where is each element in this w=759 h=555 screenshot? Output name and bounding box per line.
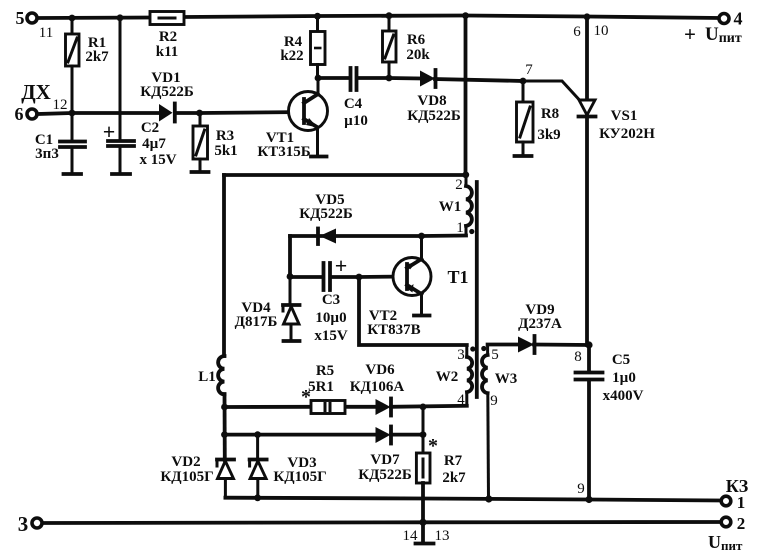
wire oscillator supply top edge bbox=[224, 173, 466, 177]
node junction C5 bottom 9 bbox=[577, 481, 592, 503]
svg-text:R6: R6 bbox=[407, 32, 426, 48]
node junction VT1 collector bbox=[315, 75, 322, 82]
wire gate to VS1 bbox=[523, 81, 579, 100]
terminal 5 bbox=[16, 8, 54, 41]
terminal 6 DX input bbox=[15, 80, 68, 124]
svg-text:1µ0: 1µ0 bbox=[612, 370, 636, 386]
svg-text:VS1: VS1 bbox=[611, 108, 638, 124]
svg-text:2k7: 2k7 bbox=[442, 470, 466, 486]
svg-text:C2: C2 bbox=[141, 120, 159, 136]
node junction L1 VD2 row bbox=[221, 431, 228, 438]
diode VD7 bbox=[358, 427, 412, 484]
node junction R6 top bbox=[386, 12, 393, 19]
svg-text:R2: R2 bbox=[159, 29, 177, 45]
inductor L1 bbox=[198, 356, 224, 394]
svg-text:3: 3 bbox=[18, 512, 29, 536]
wire C2 to top rail bbox=[119, 18, 122, 140]
diode VD9 bbox=[518, 302, 562, 353]
phasing dot W2 bbox=[470, 346, 475, 351]
svg-text:2: 2 bbox=[455, 177, 463, 193]
resistor R6 bbox=[383, 16, 431, 79]
wire R7 link VD6 VD7 bbox=[422, 407, 425, 435]
wire base node to W2 pin3 bbox=[359, 277, 467, 345]
svg-text:14: 14 bbox=[403, 528, 419, 544]
capacitor C5 bbox=[576, 345, 644, 500]
node junction R1 top bbox=[69, 15, 76, 22]
wire KZ rail bbox=[225, 498, 721, 501]
node 6 10 labels bbox=[573, 23, 608, 40]
zener VD4 bbox=[235, 276, 300, 341]
wire top supply rail bbox=[37, 16, 719, 19]
wire VD5 left corner down bbox=[288, 236, 292, 276]
resistor R5 bbox=[301, 363, 345, 414]
phasing dot W1 bbox=[469, 229, 474, 234]
svg-text:C4: C4 bbox=[344, 96, 363, 112]
terminal 4 bbox=[684, 9, 742, 47]
node 7 junction bbox=[520, 62, 534, 84]
capacitor C4 bbox=[318, 68, 389, 129]
node junction L1 bottom R5 wire bbox=[221, 404, 228, 411]
svg-text:КТ315Б: КТ315Б bbox=[257, 144, 310, 160]
winding W3 bbox=[482, 345, 517, 500]
node junction top rail x465 bbox=[462, 12, 469, 19]
wire L1 bottom down bbox=[223, 394, 227, 460]
svg-text:k11: k11 bbox=[156, 44, 179, 60]
svg-text:k22: k22 bbox=[280, 48, 303, 64]
svg-text:КУ202Н: КУ202Н bbox=[599, 126, 655, 142]
thyristor VS1 bbox=[579, 17, 656, 345]
svg-text:КД522Б: КД522Б bbox=[407, 108, 461, 124]
svg-text:3: 3 bbox=[457, 347, 465, 363]
svg-text:9: 9 bbox=[490, 393, 498, 409]
node junction C1 R1 bbox=[69, 110, 76, 117]
svg-text:4µ7: 4µ7 bbox=[142, 136, 166, 152]
capacitor C1 bbox=[35, 113, 85, 174]
diode VD6 bbox=[350, 362, 405, 416]
svg-text:Д237А: Д237А bbox=[518, 316, 562, 332]
node junction VD3 top bbox=[254, 431, 261, 438]
node junction VD6 cathode bbox=[420, 404, 427, 411]
svg-text:C3: C3 bbox=[322, 292, 340, 308]
resistor R2 bbox=[150, 12, 184, 61]
wire DX line left bbox=[37, 113, 159, 114]
diode VD5 bbox=[299, 192, 353, 244]
terminal 1 KZ bbox=[721, 476, 749, 512]
svg-text:12: 12 bbox=[53, 97, 68, 113]
svg-text:R3: R3 bbox=[216, 128, 234, 144]
svg-text:13: 13 bbox=[435, 528, 450, 544]
svg-text:КД105Г: КД105Г bbox=[273, 469, 326, 485]
svg-text:5k1: 5k1 bbox=[214, 143, 237, 159]
svg-text:W2: W2 bbox=[436, 369, 459, 385]
svg-text:VD7: VD7 bbox=[370, 452, 400, 468]
resistor R7 bbox=[416, 435, 466, 541]
winding W2 bbox=[436, 345, 472, 408]
svg-text:6: 6 bbox=[15, 104, 24, 124]
svg-text:*: * bbox=[301, 386, 311, 408]
node junction VD3 bottom bbox=[254, 494, 261, 501]
node junction C3 VD4 bbox=[287, 273, 294, 280]
svg-text:КД106А: КД106А bbox=[350, 379, 405, 395]
svg-text:5R1: 5R1 bbox=[308, 379, 334, 395]
phasing dot W3 bbox=[481, 346, 486, 351]
svg-text:2: 2 bbox=[737, 514, 746, 533]
svg-text:R7: R7 bbox=[444, 453, 463, 469]
node junction R6 bottom C4 bbox=[386, 75, 393, 82]
resistor R8 bbox=[515, 81, 561, 156]
node junction C2 top bbox=[117, 14, 124, 21]
terminal 2 Upit bbox=[708, 514, 745, 553]
svg-text:µ10: µ10 bbox=[344, 113, 368, 129]
resistor R1 bbox=[66, 18, 110, 113]
svg-text:5: 5 bbox=[16, 8, 25, 28]
svg-text:4: 4 bbox=[734, 9, 743, 29]
node junction VS1 top bbox=[584, 13, 591, 20]
transistor VT2 bbox=[359, 236, 431, 338]
terminal 3 bbox=[18, 512, 42, 536]
svg-text:КД522Б: КД522Б bbox=[299, 206, 353, 222]
diode VD1 bbox=[140, 70, 194, 122]
wire DX line right to VT1 base bbox=[175, 112, 304, 113]
svg-text:КД105Г: КД105Г bbox=[160, 469, 213, 485]
svg-text:C5: C5 bbox=[612, 352, 630, 368]
svg-text:VD8: VD8 bbox=[417, 93, 446, 109]
ground chassis 14 13 bbox=[403, 528, 450, 544]
svg-text:R8: R8 bbox=[541, 106, 559, 122]
node junction ground rail bbox=[419, 519, 426, 526]
diode VD8 bbox=[389, 70, 461, 124]
node junction W1 pin2 corner bbox=[462, 171, 469, 178]
wire bottom rail bbox=[43, 522, 721, 523]
svg-text:T1: T1 bbox=[447, 267, 468, 287]
resistor R3 bbox=[192, 113, 238, 172]
resistor R4 bbox=[280, 16, 325, 78]
svg-text:11: 11 bbox=[39, 25, 53, 41]
svg-text:ДХ: ДХ bbox=[21, 80, 51, 104]
wire left edge down to L1 bbox=[222, 175, 226, 356]
svg-text:L1: L1 bbox=[198, 369, 216, 385]
svg-text:6: 6 bbox=[573, 24, 581, 40]
node junction R3 top bbox=[196, 110, 203, 117]
transistor VT1 bbox=[257, 78, 327, 160]
svg-text:КТ837В: КТ837В bbox=[367, 322, 420, 338]
svg-text:КД522Б: КД522Б bbox=[358, 467, 412, 483]
svg-text:1: 1 bbox=[737, 493, 746, 512]
wire W3 pin5 to VD9 bbox=[488, 343, 518, 347]
node junction W3 pin9 bottom bbox=[485, 495, 492, 502]
node junction VT2 emitter top bbox=[418, 233, 425, 240]
winding W1 bbox=[439, 174, 472, 236]
transformer T1 core bbox=[447, 182, 476, 397]
svg-text:W1: W1 bbox=[439, 199, 462, 215]
svg-text:x 15V: x 15V bbox=[139, 152, 176, 168]
svg-text:VD6: VD6 bbox=[365, 362, 395, 378]
svg-text:7: 7 bbox=[525, 62, 533, 78]
svg-text:2k7: 2k7 bbox=[85, 49, 109, 65]
capacitor C2 electrolytic bbox=[103, 119, 177, 174]
wire VD8 to node 7 bbox=[435, 79, 523, 81]
wire R5 VD6 row bbox=[225, 406, 467, 407]
zener VD3 bbox=[250, 435, 327, 498]
wire VD7 row bbox=[225, 433, 424, 437]
svg-text:x15V: x15V bbox=[314, 328, 348, 344]
svg-text:*: * bbox=[428, 435, 438, 457]
svg-text:R5: R5 bbox=[316, 363, 334, 379]
node junction 8 bbox=[574, 341, 592, 365]
svg-text:VD2: VD2 bbox=[171, 454, 200, 470]
svg-text:+: + bbox=[335, 253, 348, 278]
svg-text:3k9: 3k9 bbox=[537, 127, 560, 143]
wire vertical from top rail to W1 bbox=[464, 16, 468, 176]
svg-text:8: 8 bbox=[574, 349, 582, 365]
wire VD9 to C5 node bbox=[534, 343, 589, 347]
svg-text:1: 1 bbox=[456, 220, 464, 236]
svg-text:20k: 20k bbox=[406, 47, 430, 63]
svg-text:W3: W3 bbox=[495, 371, 518, 387]
node junction R4 top bbox=[314, 13, 321, 20]
capacitor C3 electrolytic bbox=[290, 253, 359, 344]
svg-text:10: 10 bbox=[594, 23, 609, 39]
svg-text:5: 5 bbox=[491, 347, 499, 363]
zener VD2 bbox=[160, 454, 234, 498]
svg-text:Д817Б: Д817Б bbox=[235, 314, 278, 330]
svg-text:10µ0: 10µ0 bbox=[315, 310, 346, 326]
wire W1 pin1 to VD5 line bbox=[290, 234, 466, 238]
node junction VD7 cathode R7 bbox=[420, 431, 427, 438]
svg-text:+: + bbox=[684, 22, 696, 46]
svg-text:9: 9 bbox=[577, 481, 585, 497]
node junction VT2 base bbox=[356, 274, 363, 281]
svg-text:x400V: x400V bbox=[603, 388, 644, 404]
svg-text:3п3: 3п3 bbox=[35, 146, 59, 162]
svg-text:КД522Б: КД522Б bbox=[140, 84, 194, 100]
